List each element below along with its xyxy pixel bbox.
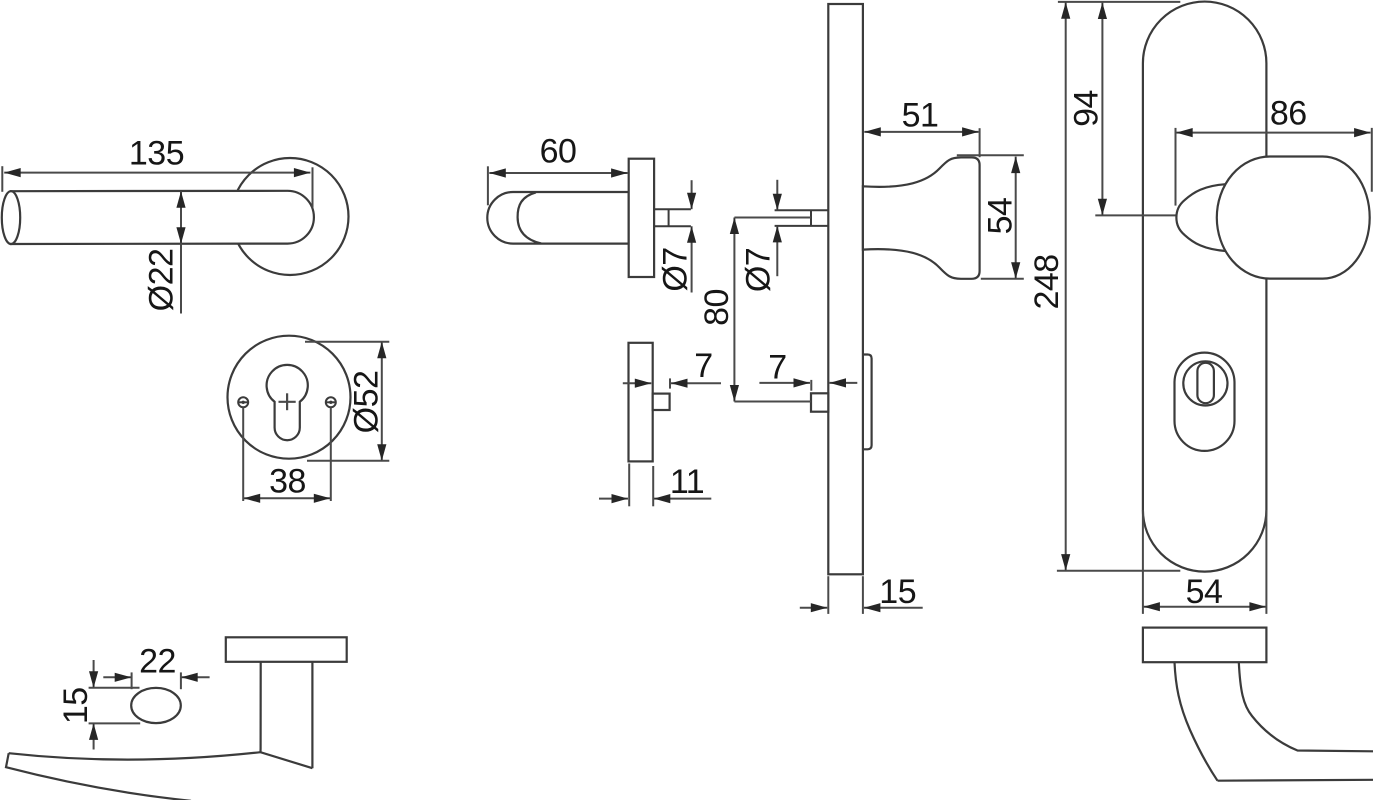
svg-text:54: 54 xyxy=(1186,573,1223,611)
svg-text:15: 15 xyxy=(57,687,95,724)
svg-text:94: 94 xyxy=(1068,90,1106,127)
svg-text:80: 80 xyxy=(698,289,736,326)
svg-text:54: 54 xyxy=(982,198,1020,235)
svg-text:Ø52: Ø52 xyxy=(348,371,386,434)
svg-text:38: 38 xyxy=(269,463,306,501)
svg-text:135: 135 xyxy=(129,135,184,173)
svg-text:22: 22 xyxy=(139,643,176,681)
svg-text:51: 51 xyxy=(902,97,939,135)
svg-text:248: 248 xyxy=(1028,254,1066,309)
svg-text:Ø7: Ø7 xyxy=(657,247,695,291)
svg-text:11: 11 xyxy=(670,463,704,501)
svg-text:15: 15 xyxy=(879,573,916,611)
svg-text:7: 7 xyxy=(768,349,786,387)
svg-text:86: 86 xyxy=(1270,95,1307,133)
svg-text:7: 7 xyxy=(694,347,712,385)
svg-text:60: 60 xyxy=(540,133,577,171)
svg-text:Ø7: Ø7 xyxy=(740,248,778,292)
svg-text:Ø22: Ø22 xyxy=(143,249,181,312)
